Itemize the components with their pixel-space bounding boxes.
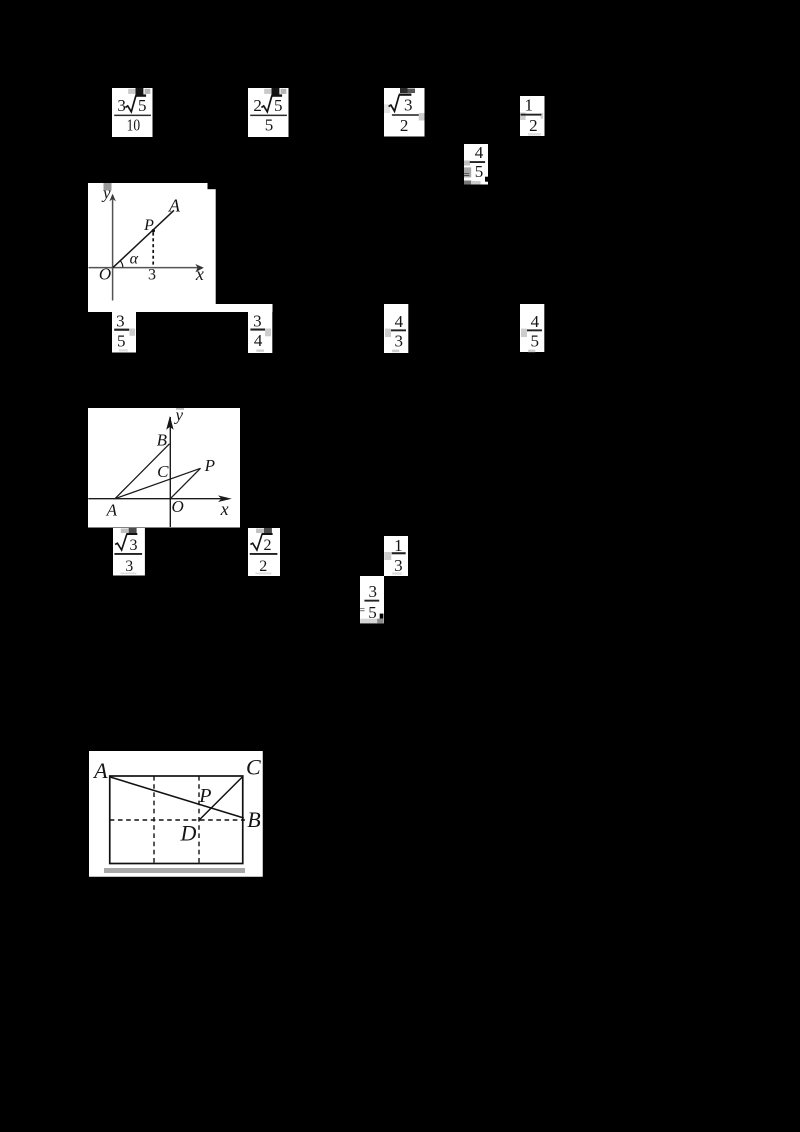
radical overline xyxy=(135,94,146,96)
point P dot xyxy=(152,229,155,232)
white panel xyxy=(520,304,544,352)
svg-text:4: 4 xyxy=(475,144,484,162)
svg-text:2: 2 xyxy=(259,558,267,575)
fraction bar xyxy=(364,600,379,602)
svg-text:x: x xyxy=(220,499,229,519)
svg-text:B: B xyxy=(247,806,260,831)
svg-text:5: 5 xyxy=(274,96,283,115)
svg-text:2: 2 xyxy=(400,116,409,135)
svg-text:α: α xyxy=(130,251,139,268)
x-axis xyxy=(89,267,203,269)
svg-text:O: O xyxy=(99,265,111,284)
angle arc xyxy=(120,261,123,268)
svg-text:3: 3 xyxy=(148,267,156,284)
fraction box A1: 3*sqrt(5)/10 xyxy=(112,88,153,137)
gray band bottom xyxy=(104,868,245,873)
fraction box D1: 1/2 xyxy=(520,96,545,136)
svg-text:5: 5 xyxy=(530,331,539,350)
black notch bottom-right xyxy=(485,176,488,181)
white panel xyxy=(248,528,280,576)
svg-text:10: 10 xyxy=(127,115,141,134)
fraction box C1: sqrt(3)/2 xyxy=(384,88,425,137)
segment A-B xyxy=(115,444,170,499)
svg-text:P: P xyxy=(204,456,215,475)
svg-text:3: 3 xyxy=(253,311,262,330)
svg-text:2: 2 xyxy=(253,96,262,115)
radical sign xyxy=(250,534,262,550)
dashed vertical 1 xyxy=(153,776,155,864)
radical top smudges xyxy=(264,88,271,93)
fraction bar xyxy=(250,553,278,555)
svg-text:3: 3 xyxy=(368,582,377,601)
segment O-P xyxy=(170,468,200,498)
svg-text:3: 3 xyxy=(394,556,403,575)
white panel xyxy=(248,304,272,353)
side smudges xyxy=(464,160,470,165)
comma xyxy=(380,614,384,619)
bottom smudges xyxy=(360,619,379,624)
white panel main xyxy=(88,183,208,304)
svg-text:4: 4 xyxy=(254,331,263,350)
svg-text:3: 3 xyxy=(404,95,413,114)
svg-text:B: B xyxy=(157,430,168,449)
dashed PQ xyxy=(152,233,154,267)
radical overline xyxy=(271,94,282,96)
side smudge xyxy=(385,328,391,337)
svg-text:A: A xyxy=(168,196,181,216)
svg-text:5: 5 xyxy=(138,96,147,115)
side smudges xyxy=(520,113,526,121)
white panel xyxy=(113,528,145,576)
radical top smudges xyxy=(256,529,264,534)
svg-text:3: 3 xyxy=(394,331,403,350)
radical overline xyxy=(126,533,137,535)
svg-text:4: 4 xyxy=(531,311,540,330)
fraction bar xyxy=(250,114,287,116)
line C-D xyxy=(198,777,242,821)
svg-text:P: P xyxy=(198,785,211,807)
svg-text:C: C xyxy=(246,754,261,779)
white panel right extension xyxy=(207,189,216,304)
radical sign xyxy=(261,95,272,111)
svg-text:3: 3 xyxy=(117,96,126,115)
fraction box B1: 2*sqrt(5)/5 xyxy=(248,88,289,137)
white panel xyxy=(464,144,488,185)
fraction bar xyxy=(470,161,485,163)
svg-text:5: 5 xyxy=(117,331,126,350)
fraction box =3/5, xyxy=(360,576,385,624)
radical top smudges xyxy=(400,88,408,93)
diagram 3: rectangle with diagonals A C B D P xyxy=(89,751,263,877)
side smudge xyxy=(384,552,391,560)
y-axis xyxy=(169,417,171,527)
radical sign xyxy=(125,95,135,111)
white panel xyxy=(520,96,545,136)
radical top smudges xyxy=(120,529,128,534)
svg-text:2: 2 xyxy=(529,116,538,135)
fraction bar xyxy=(392,552,406,554)
side smudges xyxy=(384,104,390,113)
white panel xyxy=(112,312,136,353)
fraction bar xyxy=(521,114,542,116)
white panel xyxy=(112,88,153,137)
svg-text:3: 3 xyxy=(125,558,133,575)
svg-text:5: 5 xyxy=(265,115,274,134)
fraction bar xyxy=(250,328,265,330)
svg-text:y: y xyxy=(101,183,111,202)
side smudge xyxy=(521,328,527,337)
white panel xyxy=(248,88,289,137)
dashed horizontal xyxy=(110,819,245,821)
radical sign xyxy=(115,534,127,550)
white panel xyxy=(384,88,425,137)
fraction box B2: 3/4 xyxy=(248,304,273,353)
svg-text:A: A xyxy=(106,501,118,520)
radical overline xyxy=(399,93,412,95)
ray O to A xyxy=(113,210,174,267)
white panel xyxy=(384,304,408,353)
fraction box A2: 3/5 xyxy=(112,312,137,353)
fraction box B3: sqrt(2)/2 xyxy=(248,528,280,576)
dashed vertical 2 xyxy=(198,776,200,864)
svg-text:1: 1 xyxy=(525,96,534,115)
diagram 2: triangle A B with rays, points C P O on axes xyxy=(88,408,241,530)
svg-text:1: 1 xyxy=(394,536,403,555)
gray streak above y label xyxy=(176,408,184,410)
svg-text:3: 3 xyxy=(129,537,137,554)
svg-text:=: = xyxy=(464,169,470,181)
side smudge xyxy=(265,328,271,336)
rectangle outline xyxy=(110,776,243,864)
fraction box A3: sqrt(3)/3 xyxy=(113,528,145,576)
fraction bar xyxy=(114,328,129,330)
fraction box C2: 4/3 xyxy=(384,304,409,353)
radical overline xyxy=(262,533,273,535)
svg-text:2: 2 xyxy=(264,537,272,554)
svg-text:C: C xyxy=(157,462,169,481)
fraction bar xyxy=(114,553,142,555)
fraction bar xyxy=(392,114,419,116)
fraction box C3: 1/3 xyxy=(384,536,409,576)
radical top smudges xyxy=(128,88,135,93)
svg-text:D: D xyxy=(179,820,196,845)
svg-text:y: y xyxy=(174,408,184,425)
side smudge xyxy=(130,328,136,335)
y-axis xyxy=(112,195,114,301)
svg-text:5: 5 xyxy=(475,161,484,180)
radical sign xyxy=(389,94,400,110)
fraction bar xyxy=(114,114,151,116)
svg-text:4: 4 xyxy=(395,311,404,330)
svg-text:O: O xyxy=(171,497,183,516)
svg-text:P: P xyxy=(143,217,154,234)
white panel xyxy=(360,576,384,623)
diagram 1: ray OA with angle alpha, point P above x=3 xyxy=(88,183,273,312)
svg-text:=: = xyxy=(360,605,365,617)
segment A-P xyxy=(115,468,201,498)
white panel xyxy=(384,536,408,576)
x-axis xyxy=(88,498,224,500)
svg-text:A: A xyxy=(92,758,108,783)
svg-text:x: x xyxy=(195,264,204,284)
svg-text:3: 3 xyxy=(116,312,125,331)
white strip bottom xyxy=(88,304,273,312)
fraction box D2: 4/5 xyxy=(520,304,545,353)
fraction bar xyxy=(527,329,542,331)
fraction bar xyxy=(391,329,406,331)
gray smudge top-left xyxy=(104,183,112,191)
fraction box =4/5 xyxy=(464,144,489,185)
diagonal A-B xyxy=(110,777,244,818)
